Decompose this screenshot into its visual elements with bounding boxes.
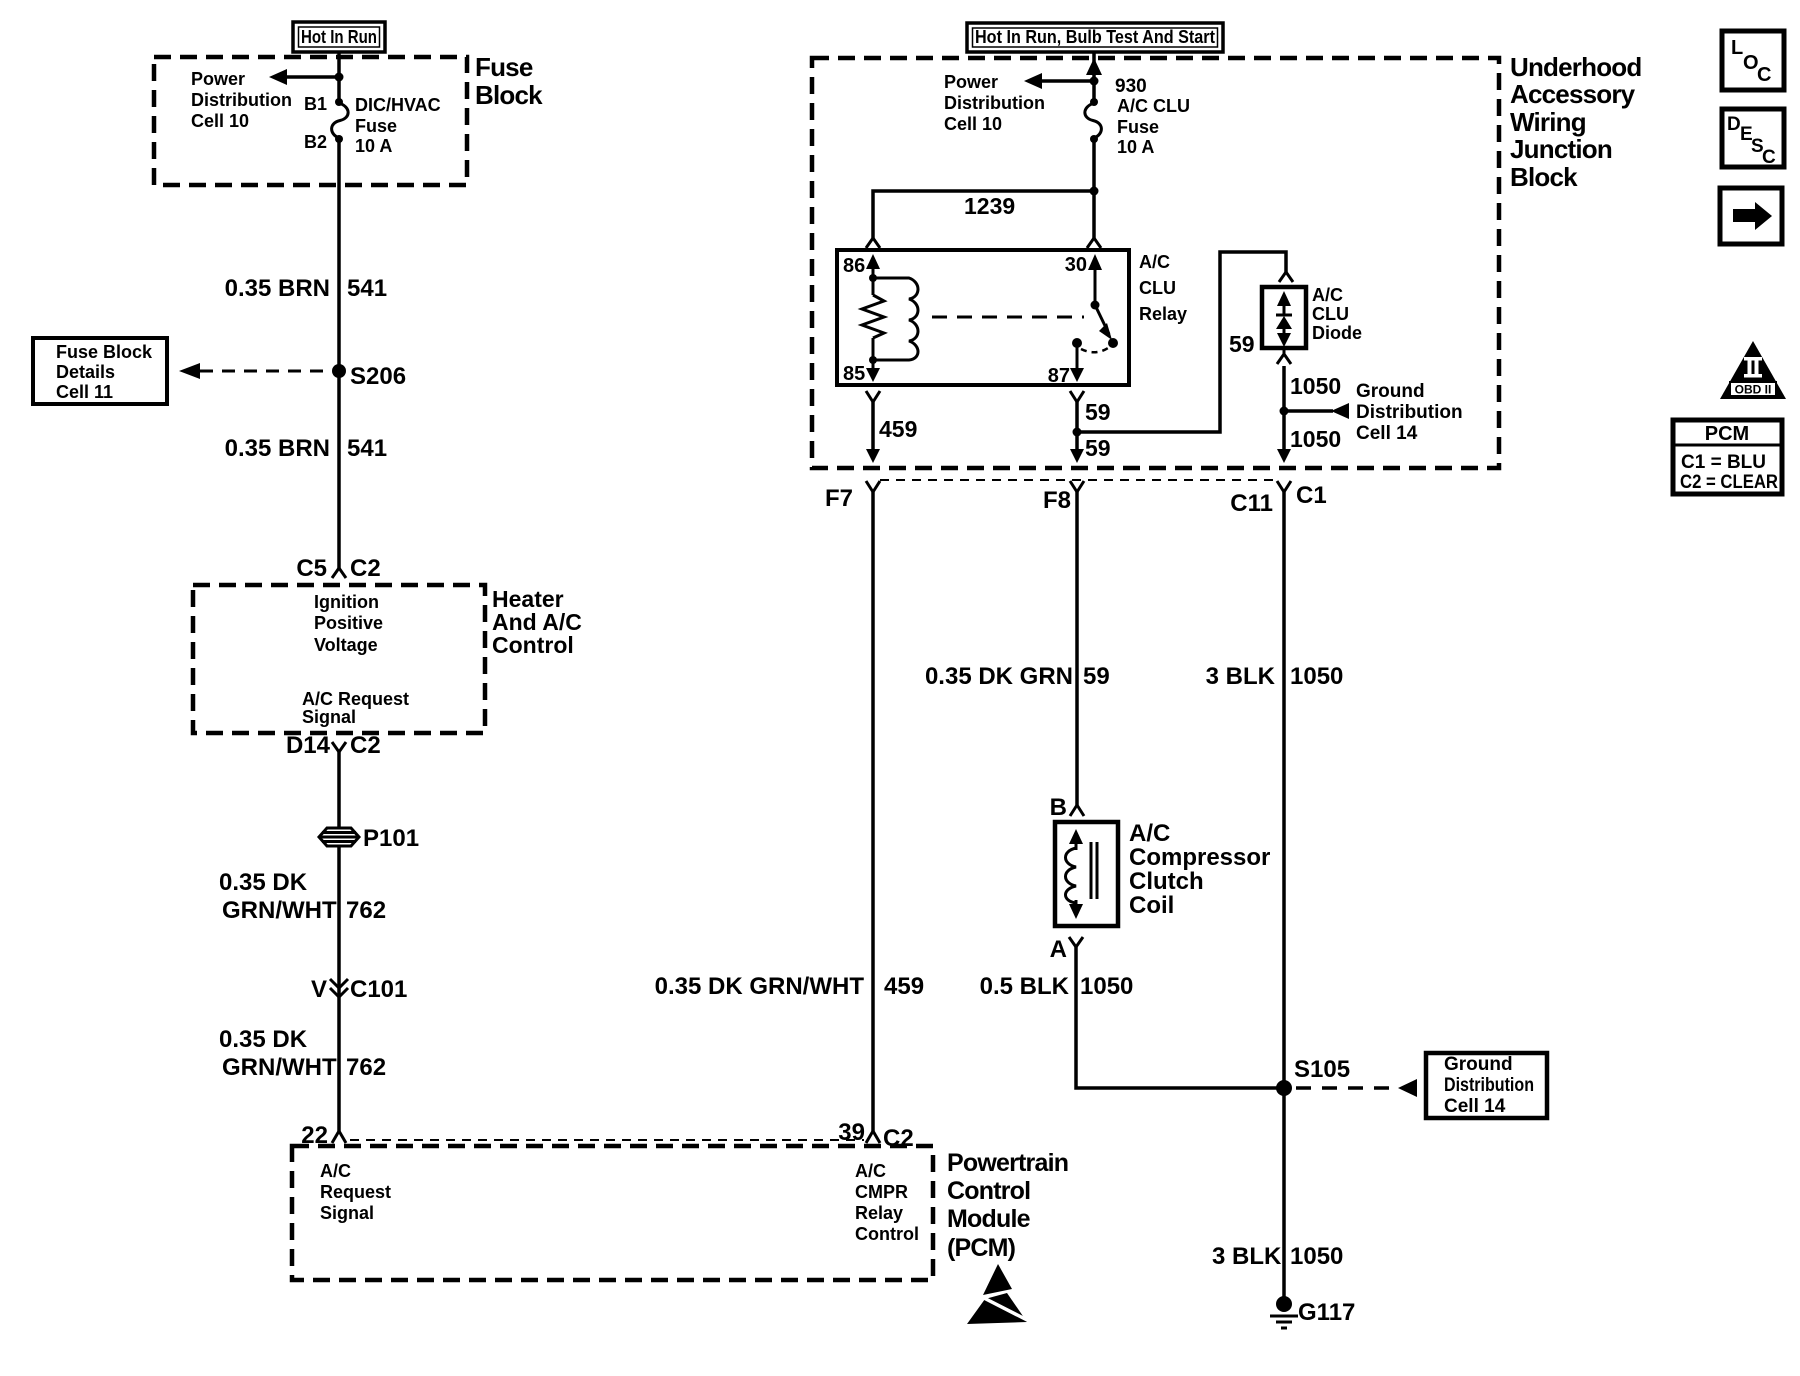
svg-text:C2: C2 (350, 732, 381, 759)
svg-text:Relay: Relay (855, 1203, 903, 1223)
svg-text:OBD II: OBD II (1735, 383, 1772, 397)
svg-text:CLU: CLU (1139, 278, 1176, 298)
svg-text:Clutch: Clutch (1129, 868, 1204, 895)
svg-text:Fuse: Fuse (1117, 117, 1159, 137)
svg-text:Ignition: Ignition (314, 592, 379, 612)
svg-text:Hot In Run, Bulb Test And Star: Hot In Run, Bulb Test And Start (975, 27, 1215, 47)
svg-text:Wiring: Wiring (1510, 107, 1586, 137)
svg-text:B2: B2 (304, 132, 327, 152)
svg-text:Diode: Diode (1312, 323, 1362, 343)
svg-text:Distribution: Distribution (191, 90, 292, 110)
svg-text:Control: Control (947, 1177, 1030, 1205)
svg-text:C2: C2 (883, 1125, 914, 1152)
svg-text:Cell 10: Cell 10 (191, 111, 249, 131)
svg-text:A/C: A/C (320, 1161, 351, 1181)
svg-text:L: L (1731, 37, 1743, 59)
svg-text:D14: D14 (286, 732, 331, 759)
svg-text:10 A: 10 A (1117, 137, 1154, 157)
svg-text:Distribution: Distribution (944, 93, 1045, 113)
svg-text:DIC/HVAC: DIC/HVAC (355, 95, 441, 115)
svg-text:D: D (1727, 114, 1741, 135)
svg-text:F7: F7 (825, 485, 853, 512)
svg-text:3 BLK: 3 BLK (1212, 1243, 1282, 1270)
svg-text:Block: Block (1510, 162, 1578, 192)
svg-text:1050: 1050 (1290, 663, 1343, 690)
svg-text:59: 59 (1229, 331, 1255, 357)
svg-text:S206: S206 (350, 363, 406, 390)
svg-text:Junction: Junction (1510, 134, 1612, 164)
svg-text:Fuse Block: Fuse Block (56, 342, 153, 362)
svg-text:V: V (311, 976, 327, 1003)
svg-text:Compressor: Compressor (1129, 844, 1270, 871)
svg-text:A/C CLU: A/C CLU (1117, 96, 1190, 116)
svg-text:Cell 11: Cell 11 (56, 382, 113, 402)
svg-text:C5: C5 (296, 555, 327, 582)
svg-text:Signal: Signal (302, 707, 356, 727)
svg-text:C11: C11 (1230, 490, 1273, 517)
svg-text:GRN/WHT: GRN/WHT (222, 1054, 337, 1081)
svg-text:B1: B1 (304, 94, 327, 114)
svg-text:Power: Power (191, 69, 245, 89)
svg-text:CLU: CLU (1312, 304, 1349, 324)
svg-text:59: 59 (1085, 435, 1111, 461)
svg-text:C: C (1762, 147, 1776, 168)
svg-text:459: 459 (884, 973, 924, 1000)
svg-text:Fuse: Fuse (355, 116, 397, 136)
svg-text:Underhood: Underhood (1510, 52, 1641, 82)
svg-text:59: 59 (1083, 663, 1110, 690)
svg-text:A/C: A/C (1312, 285, 1343, 305)
svg-text:Ground: Ground (1356, 381, 1425, 402)
svg-text:0.35 BRN: 0.35 BRN (225, 275, 330, 302)
svg-text:0.35 DK GRN: 0.35 DK GRN (925, 663, 1073, 690)
svg-text:762: 762 (346, 1054, 386, 1081)
svg-text:A/C: A/C (1129, 820, 1170, 847)
svg-text:A/C Request: A/C Request (302, 689, 409, 709)
svg-text:0.35 DK GRN/WHT: 0.35 DK GRN/WHT (655, 973, 865, 1000)
svg-text:F8: F8 (1043, 487, 1071, 514)
svg-text:930: 930 (1115, 76, 1147, 97)
svg-text:Ground: Ground (1444, 1054, 1513, 1075)
svg-text:Request: Request (320, 1182, 391, 1202)
svg-text:Signal: Signal (320, 1203, 374, 1223)
svg-text:762: 762 (346, 897, 386, 924)
svg-text:1050: 1050 (1290, 373, 1341, 399)
svg-text:Hot In Run: Hot In Run (301, 27, 377, 47)
svg-text:C1 = BLU: C1 = BLU (1681, 452, 1766, 473)
svg-text:A/C: A/C (855, 1161, 886, 1181)
svg-text:G117: G117 (1298, 1299, 1355, 1326)
svg-text:87: 87 (1048, 365, 1070, 387)
svg-text:CMPR: CMPR (855, 1182, 908, 1202)
svg-text:Relay: Relay (1139, 304, 1187, 324)
svg-text:1050: 1050 (1290, 1243, 1343, 1270)
svg-text:86: 86 (843, 255, 865, 277)
svg-text:541: 541 (347, 435, 387, 462)
svg-text:B: B (1050, 794, 1067, 821)
svg-text:GRN/WHT: GRN/WHT (222, 897, 337, 924)
svg-text:3 BLK: 3 BLK (1206, 663, 1276, 690)
svg-text:Powertrain: Powertrain (947, 1149, 1068, 1177)
svg-text:Details: Details (56, 362, 115, 382)
svg-text:10 A: 10 A (355, 136, 392, 156)
svg-text:S105: S105 (1294, 1056, 1350, 1083)
svg-text:C2: C2 (350, 555, 381, 582)
svg-text:1050: 1050 (1290, 426, 1341, 452)
svg-text:0.35 BRN: 0.35 BRN (225, 435, 330, 462)
svg-text:C1: C1 (1296, 482, 1327, 509)
svg-text:Cell 14: Cell 14 (1444, 1096, 1506, 1117)
svg-text:0.35 DK: 0.35 DK (219, 869, 308, 896)
svg-text:A/C: A/C (1139, 252, 1170, 272)
svg-text:C2 = CLEAR: C2 = CLEAR (1680, 472, 1778, 493)
svg-text:Block: Block (475, 80, 543, 110)
svg-text:30: 30 (1065, 254, 1087, 276)
svg-text:Voltage: Voltage (314, 635, 378, 655)
svg-text:Coil: Coil (1129, 892, 1174, 919)
svg-text:Distribution: Distribution (1444, 1075, 1534, 1096)
svg-text:(PCM): (PCM) (947, 1234, 1016, 1262)
svg-text:1239: 1239 (964, 193, 1015, 219)
svg-text:Power: Power (944, 72, 998, 92)
svg-text:PCM: PCM (1705, 423, 1749, 445)
svg-text:C101: C101 (350, 976, 407, 1003)
svg-text:P101: P101 (363, 825, 419, 852)
svg-text:85: 85 (843, 363, 865, 385)
svg-text:Distribution: Distribution (1356, 402, 1463, 423)
svg-text:C: C (1757, 64, 1771, 86)
svg-text:459: 459 (879, 416, 917, 442)
svg-text:Positive: Positive (314, 613, 383, 633)
svg-text:1050: 1050 (1080, 973, 1133, 1000)
svg-text:Control: Control (492, 632, 574, 658)
svg-text:Module: Module (947, 1205, 1031, 1233)
svg-text:A: A (1050, 936, 1067, 963)
svg-text:0.5 BLK: 0.5 BLK (980, 973, 1070, 1000)
svg-text:Accessory: Accessory (1510, 79, 1636, 109)
svg-text:Cell 14: Cell 14 (1356, 423, 1418, 444)
svg-text:Control: Control (855, 1224, 919, 1244)
svg-text:59: 59 (1085, 399, 1111, 425)
svg-text:39: 39 (838, 1119, 865, 1146)
svg-text:Fuse: Fuse (475, 52, 533, 82)
svg-text:541: 541 (347, 275, 387, 302)
svg-text:0.35 DK: 0.35 DK (219, 1026, 308, 1053)
svg-text:Cell 10: Cell 10 (944, 114, 1002, 134)
